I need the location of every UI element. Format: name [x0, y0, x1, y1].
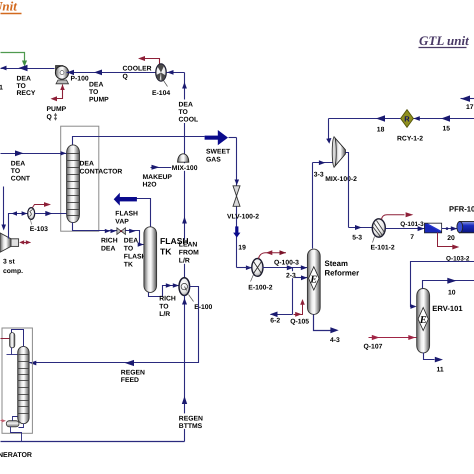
svg-text:SWEET: SWEET — [206, 149, 231, 156]
svg-text:3-3: 3-3 — [314, 171, 324, 178]
wire reformer overhead 3-3 riser — [312, 163, 314, 249]
wire compressor suction line — [1, 187, 6, 231]
wire regen bottoms long line — [1, 441, 185, 443]
energy stream condenser duty — [1, 338, 10, 340]
svg-text:PFR-100-2: PFR-100-2 — [449, 205, 474, 214]
svg-text:CONTACTOR: CONTACTOR — [80, 169, 123, 176]
svg-text:TO: TO — [124, 245, 133, 252]
svg-text:E-101-2: E-101-2 — [371, 245, 395, 252]
svg-text:COOL: COOL — [179, 117, 199, 124]
svg-text:DEA: DEA — [101, 246, 115, 253]
wire reformer bottoms 4-3 — [314, 315, 339, 334]
wire pump discharge to E-104 — [67, 70, 157, 76]
wire DEA TO COOL riser — [182, 73, 187, 155]
svg-text:P-100: P-100 — [71, 76, 89, 83]
exchanger E-100-2 — [251, 259, 264, 282]
svg-text:TK: TK — [160, 247, 172, 257]
svg-text:E-103: E-103 — [30, 226, 48, 233]
energy stream compressor duty — [19, 240, 31, 244]
svg-text:RCY-1-2: RCY-1-2 — [397, 136, 423, 143]
valve VLV-100-2 — [233, 186, 240, 207]
svg-text:Q-100-3: Q-100-3 — [274, 260, 299, 267]
svg-text:7: 7 — [410, 234, 414, 241]
svg-text:18: 18 — [377, 127, 385, 134]
svg-text:RECY: RECY — [17, 90, 36, 97]
svg-text:VAP: VAP — [115, 219, 129, 226]
svg-text:E-100-2: E-100-2 — [248, 285, 272, 292]
wire tee down to 6-2 — [292, 268, 294, 315]
svg-text:TO: TO — [11, 168, 20, 175]
label MIX-100 — [171, 163, 198, 172]
condenser drum — [10, 333, 15, 348]
svg-text:5-3: 5-3 — [352, 235, 362, 242]
svg-text:Q: Q — [47, 114, 52, 121]
wire 19 into E-100-2 — [246, 265, 252, 270]
wire stream 11 — [424, 353, 444, 363]
svg-text:BTTMS: BTTMS — [179, 423, 203, 430]
svg-text:GTL unit: GTL unit — [419, 33, 469, 48]
column DEA CONTACTOR — [67, 145, 80, 223]
svg-text:15: 15 — [443, 126, 451, 133]
wire flash tank bottoms RICH TO L/R into E-100 — [149, 283, 180, 296]
svg-text:MIX-100: MIX-100 — [172, 165, 198, 172]
svg-text:FROM: FROM — [179, 250, 199, 257]
svg-text:CONT: CONT — [11, 176, 31, 183]
wire sweet gas down through valve to E-100-2 — [235, 138, 240, 268]
wire lean DEA riser (MIX-100 to E-100) — [182, 163, 187, 279]
svg-text:Q-105: Q-105 — [290, 319, 309, 326]
svg-text:20: 20 — [447, 235, 455, 242]
svg-text:17: 17 — [466, 104, 474, 111]
svg-text:ERV-101: ERV-101 — [432, 304, 463, 313]
label DEA TO CONT — [11, 161, 31, 183]
svg-text:PUMP: PUMP — [47, 106, 67, 113]
wire stream 17 (cut at right edge) — [461, 96, 474, 102]
svg-text:TO: TO — [89, 89, 98, 96]
svg-text:REGEN: REGEN — [121, 370, 145, 377]
label RICH TO L/R — [159, 296, 176, 319]
heater E-103 — [28, 208, 35, 225]
svg-text:L/R: L/R — [179, 258, 190, 265]
exchanger E-101-2 — [372, 219, 385, 243]
svg-text:DEA: DEA — [80, 161, 94, 168]
wire E-103 to contactor bottom feed — [35, 211, 67, 216]
thick arrow stream 19 — [233, 226, 240, 237]
svg-text:FEED: FEED — [121, 377, 139, 384]
reactor ERV-101 — [417, 289, 430, 353]
svg-text:DEA: DEA — [89, 82, 103, 89]
wire 20 to PFR — [442, 226, 460, 231]
svg-text:2-3: 2-3 — [286, 273, 296, 280]
label PUMP Q — [47, 106, 67, 121]
svg-text:VLV-100-2: VLV-100-2 — [227, 214, 259, 221]
wire E-100-2 to steam reformer — [263, 265, 308, 270]
reboiler kettle — [6, 421, 19, 427]
exchanger E-100 — [179, 278, 194, 302]
label DEA TO PUMP — [89, 82, 109, 104]
wire 6-2 outlet — [270, 312, 293, 318]
column DEA regenerator — [18, 346, 30, 423]
svg-text:Reformer: Reformer — [325, 269, 360, 278]
wire valve to flash tank DEA TO FLASH TK — [126, 229, 144, 247]
svg-text:MAKEUP: MAKEUP — [143, 174, 173, 181]
svg-text:E: E — [419, 315, 427, 326]
energy stream reboiler duty — [1, 419, 7, 423]
svg-text:TK: TK — [124, 261, 133, 268]
recycle RCY-1-2 — [401, 110, 414, 128]
wire contactor bottoms RICH DEA — [73, 223, 117, 234]
svg-text:TO: TO — [17, 83, 26, 90]
label DEA TO COOL — [178, 100, 198, 124]
energy stream Q-105 — [294, 299, 305, 317]
svg-text:6-2: 6-2 — [270, 318, 280, 325]
svg-text:Steam: Steam — [325, 259, 348, 268]
valve rich DEA letdown — [117, 228, 126, 235]
svg-text:RICH: RICH — [159, 296, 176, 303]
label FLASH TK — [160, 236, 189, 257]
mixer MIX-100 — [178, 154, 189, 162]
label RICH DEA — [101, 238, 118, 253]
svg-text:4-3: 4-3 — [330, 337, 340, 344]
title GTL unit — [419, 33, 470, 48]
pump P-100 — [55, 66, 68, 84]
svg-text:TO: TO — [179, 109, 188, 116]
wire green recycle stream into DEA TO RECY node — [1, 53, 28, 67]
reactor PFR-100-2 (cut at right edge) — [457, 221, 474, 232]
label DEA TO FLASH TK — [124, 238, 147, 269]
energy stream Q-101-3 — [382, 212, 414, 219]
svg-text:E-104: E-104 — [152, 90, 170, 97]
svg-text:R: R — [404, 115, 410, 124]
wire reflux/distillate — [7, 348, 18, 355]
label LEAN FROM L/R — [178, 240, 199, 265]
title Amine unit (cut off at left edge) — [0, 0, 22, 14]
svg-text:RICH: RICH — [101, 238, 118, 245]
label 3 st comp. — [3, 259, 23, 276]
label 2-3 — [286, 271, 296, 279]
svg-text:H2O: H2O — [143, 182, 157, 189]
svg-text:11: 11 — [437, 367, 444, 374]
svg-text:comp.: comp. — [3, 268, 23, 275]
vessel FLASH TK — [144, 227, 157, 293]
wire 7 to compressor — [386, 226, 425, 231]
wire E-104 inlet from corner — [167, 70, 185, 75]
svg-text:DEA: DEA — [17, 76, 31, 83]
svg-text:FLASH: FLASH — [124, 253, 147, 260]
svg-text:E: E — [309, 275, 317, 286]
wire DEA TO RECY line (pump suction, to left edge) — [1, 65, 55, 71]
svg-text:10: 10 — [448, 290, 456, 297]
wire recycle down into mixer — [326, 119, 331, 144]
wire RCY line 18/15 — [329, 115, 474, 121]
reactor Steam Reformer — [307, 249, 320, 314]
wire mixer outlet down to 5-3 — [346, 153, 349, 228]
svg-text:L/R: L/R — [159, 311, 170, 318]
energy stream Q-103-2 — [438, 233, 460, 250]
svg-text:M1: M1 — [0, 85, 3, 92]
label MAKEUP H2O — [143, 174, 173, 189]
svg-text:Q-101-3: Q-101-3 — [400, 221, 424, 228]
compressor K-100-2 — [425, 223, 442, 233]
wire 3-3 into mixer — [313, 160, 335, 165]
svg-text:Unit: Unit — [0, 0, 17, 14]
label REGEN BTTMS — [178, 413, 203, 430]
wire stream 10 — [423, 278, 474, 289]
label COOLER Q — [123, 66, 152, 81]
wire reboiler connections — [11, 417, 24, 442]
energy stream Q-100-3 — [259, 250, 287, 258]
svg-text:MIX-100-2: MIX-100-2 — [325, 176, 357, 183]
mixer MIX-100-2 — [332, 137, 345, 167]
svg-text:FLASH: FLASH — [115, 211, 138, 218]
svg-text:PUMP: PUMP — [89, 97, 109, 104]
big arrow FLASH VAP — [114, 193, 137, 206]
svg-text:Q: Q — [123, 74, 128, 81]
svg-text:3 st: 3 st — [3, 259, 15, 266]
svg-text:FLASH: FLASH — [160, 236, 189, 246]
svg-text:DEA: DEA — [11, 161, 25, 168]
label SWEET GAS — [206, 149, 231, 164]
svg-text:Q-107: Q-107 — [364, 344, 383, 351]
wire contactor overhead to sweet gas — [73, 137, 205, 147]
wire flash vapour line — [137, 199, 151, 227]
svg-text:TO: TO — [159, 304, 168, 311]
wire 5-3 into E-101-2 — [349, 225, 373, 230]
wire MAKEUP H2O inlet — [151, 165, 185, 170]
cooler E-104 — [156, 64, 168, 87]
subflowsheet border DEA regenerator — [2, 328, 32, 433]
energy stream pump Q — [51, 85, 65, 102]
label REGEN FEED — [121, 370, 145, 385]
svg-text:COOLER: COOLER — [123, 66, 152, 73]
wire compressor discharge to E-103 — [9, 211, 29, 238]
label FLASH VAP — [115, 211, 138, 226]
energy stream cooler Q — [138, 56, 160, 65]
svg-text:E-100: E-100 — [194, 304, 212, 311]
wire DEA TO CONT feed — [1, 150, 67, 156]
label 3-3 — [313, 169, 324, 178]
wire PFR effluent return to ERV-101 — [410, 262, 474, 309]
svg-text:19: 19 — [238, 245, 246, 252]
label Steam Reformer — [325, 259, 360, 278]
svg-text:GAS: GAS — [206, 157, 221, 164]
svg-text:REGEN: REGEN — [179, 415, 203, 422]
wire E-100 outlet to regenerator feed — [30, 287, 199, 367]
svg-text:DEA: DEA — [179, 102, 193, 109]
wire regen overhead to condenser — [12, 330, 24, 347]
big arrow SWEET GAS — [205, 130, 237, 145]
label DEA TO RECY — [17, 76, 36, 98]
label DEA CONTACTOR — [80, 161, 123, 176]
svg-text:DEA: DEA — [124, 238, 138, 245]
compressor 3 st comp — [0, 233, 19, 252]
energy stream Q-107 — [369, 335, 417, 340]
wire regen bottoms riser to E-100 — [182, 296, 187, 442]
wire 2-3 branch into reformer — [293, 275, 308, 280]
subflowsheet border DEA contactor — [61, 126, 99, 231]
svg-text:NERATOR: NERATOR — [0, 452, 32, 459]
energy stream E-103 Q — [33, 202, 52, 207]
